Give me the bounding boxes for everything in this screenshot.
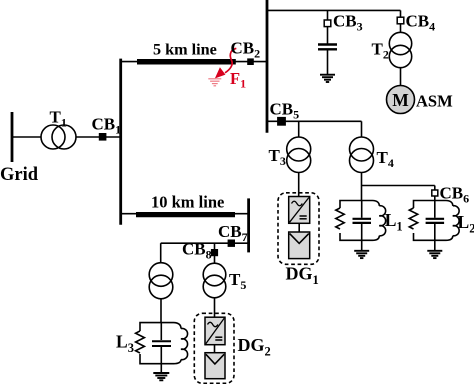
svg-text:5 km line: 5 km line bbox=[153, 41, 217, 59]
svg-text:10 km line: 10 km line bbox=[151, 193, 224, 212]
svg-text:ASM: ASM bbox=[416, 92, 453, 111]
svg-text:Grid: Grid bbox=[0, 165, 39, 185]
svg-text:M: M bbox=[392, 90, 409, 110]
